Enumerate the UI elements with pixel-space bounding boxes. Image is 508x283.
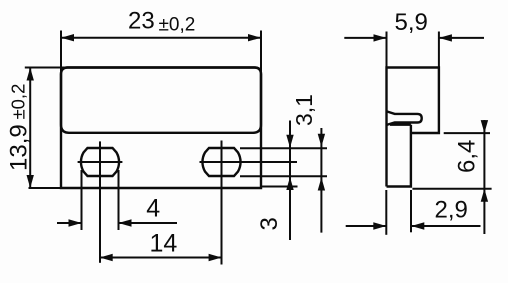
svg-text:13,9: 13,9: [6, 124, 33, 171]
svg-text:14: 14: [150, 230, 178, 258]
svg-text:4: 4: [146, 195, 160, 223]
svg-text:±0,2: ±0,2: [159, 15, 196, 36]
svg-text:±0,2: ±0,2: [7, 84, 28, 120]
svg-text:5,9: 5,9: [395, 9, 428, 36]
svg-text:2,9: 2,9: [435, 197, 468, 224]
svg-text:3,1: 3,1: [291, 94, 317, 126]
svg-text:3: 3: [256, 217, 283, 230]
svg-text:23: 23: [128, 8, 155, 35]
svg-text:6,4: 6,4: [454, 140, 481, 173]
